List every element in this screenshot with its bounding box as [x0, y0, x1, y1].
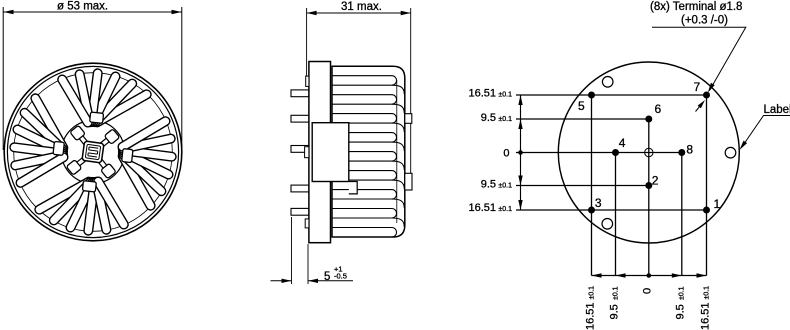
- side view: winding wire segment 2: [332, 84, 392, 86]
- bottom view: left dim vertical line: [520, 95, 522, 210]
- left view: winding spoke 8: [25, 113, 64, 150]
- side view: winding wire segment 25: [332, 228, 397, 238]
- side view: winding wire segment 21: [392, 199, 405, 208]
- svg-text:7: 7: [694, 80, 701, 94]
- bottom view: center reference mark: [645, 148, 653, 156]
- left view: winding spoke 12: [21, 157, 64, 183]
- side view: winding wire segment 15: [392, 161, 405, 170]
- left view: winding spoke 14: [54, 182, 91, 221]
- side view: winding wire segment 8: [350, 122, 392, 124]
- left view: winding spoke 4: [92, 73, 98, 122]
- side view: winding wire segment 22: [332, 209, 397, 219]
- left view: center hub square: [82, 141, 104, 163]
- left view: winding spoke 24: [123, 121, 166, 147]
- side view: bottom dim extension lines: [291, 217, 293, 284]
- bottom view: terminal 4: [612, 149, 619, 156]
- side view: pin 3 collar: [305, 147, 309, 158]
- bottom view: terminal 8: [678, 149, 685, 156]
- side view: winding wire segment 11: [350, 141, 392, 143]
- side view: winding wire segment 17: [350, 179, 392, 181]
- side view: winding wire segment 12: [392, 142, 405, 151]
- svg-text:4: 4: [619, 136, 626, 150]
- left view: hub pad at 135 deg: [70, 125, 85, 140]
- side view: extension line left: [306, 8, 308, 86]
- bottom view: terminal 2: [645, 182, 652, 189]
- svg-text:-0.5: -0.5: [334, 272, 347, 281]
- svg-text:±0.1: ±0.1: [703, 286, 710, 300]
- svg-text:±0.1: ±0.1: [612, 286, 619, 300]
- left view: ø53 dimension line with arrowheads: [4, 11, 182, 13]
- left view: bobbin circle: [62, 121, 125, 184]
- side view: terminal pin 5: [291, 208, 309, 215]
- svg-text:9.5: 9.5: [675, 304, 687, 319]
- svg-text:0: 0: [642, 288, 654, 294]
- left view: hub pad at 225 deg: [66, 160, 81, 175]
- left view: winding spoke 21: [123, 152, 169, 174]
- svg-text:16.51: 16.51: [584, 302, 596, 330]
- side view: winding wire segment 24: [392, 218, 405, 227]
- svg-text:16.51: 16.51: [468, 88, 496, 100]
- svg-text:6: 6: [655, 102, 662, 116]
- bottom view: terminal 5: [588, 92, 595, 99]
- left view: winding spoke 11: [15, 155, 63, 165]
- left view: bobbin pad at 174 deg: [53, 141, 64, 155]
- svg-text:±0.1: ±0.1: [498, 183, 512, 190]
- left view: winding spoke 7: [35, 98, 63, 148]
- bottom view: bottom rotated dim labels: [584, 286, 596, 330]
- left view: winding spoke 10: [14, 147, 63, 153]
- side view: winding wire segment 10: [350, 133, 397, 143]
- svg-text:±0.1: ±0.1: [498, 206, 512, 213]
- side view: winding wire segment 18: [392, 180, 405, 189]
- side view: winding wire segment 14: [350, 160, 392, 162]
- left view: winding spoke 5: [80, 74, 90, 122]
- side view: winding wire segment 4: [332, 95, 397, 105]
- left view: hub pad at 45 deg: [104, 129, 119, 144]
- side view: hub box step: [349, 182, 357, 194]
- bottom view: grid column lines: [592, 95, 707, 276]
- side view: winding wire segment 6: [392, 104, 405, 113]
- left view: winding spoke 3: [93, 77, 115, 123]
- bottom view: terminal 1: [703, 207, 710, 214]
- svg-text:5: 5: [578, 99, 585, 113]
- side view: winding wire segment 20: [332, 198, 392, 200]
- left view: winding spoke 22: [123, 151, 172, 157]
- left view: extension line right: [181, 7, 183, 150]
- left view: hub pad at 315 deg: [101, 163, 116, 178]
- svg-text:5: 5: [324, 271, 330, 283]
- bottom view: terminal callout leader: [652, 27, 746, 90]
- bottom view: mounting boss bottom-left: [602, 219, 613, 230]
- svg-text:±0.1: ±0.1: [588, 286, 595, 300]
- side view: terminal pin 3: [291, 146, 309, 153]
- svg-text:±0.1: ±0.1: [498, 92, 512, 99]
- svg-text:16.51: 16.51: [468, 202, 496, 214]
- bottom view: terminal 6: [645, 116, 652, 123]
- left view: winding spoke 15: [71, 182, 93, 228]
- left view: winding spoke 2: [95, 84, 132, 123]
- left view: outer case circle: [4, 63, 182, 241]
- left view: hub arm at 225 deg: [77, 158, 86, 166]
- svg-text:9.5: 9.5: [481, 112, 496, 124]
- left view: winding spoke 9: [18, 130, 64, 152]
- left view: winding spoke 19: [123, 156, 151, 206]
- left view: winding spoke 18: [98, 182, 124, 225]
- left view: case rim circle: [7, 66, 178, 237]
- svg-text:Label: Label: [764, 104, 790, 116]
- svg-text:9.5: 9.5: [608, 304, 620, 319]
- side view: winding wire segment 7: [332, 114, 397, 124]
- bottom view: bottom dim horizontal line: [592, 275, 707, 277]
- svg-text:ø 53 max.: ø 53 max.: [57, 1, 108, 13]
- left view: bobbin pad at 264 deg: [82, 181, 96, 192]
- left view: winding spoke 23: [123, 139, 171, 149]
- svg-text:8: 8: [686, 143, 693, 157]
- bottom view: Label callout leader: [742, 116, 790, 148]
- left view: extension line left: [2, 7, 4, 150]
- left view: hub arm at 45 deg: [100, 139, 109, 147]
- side view: center hub box: [312, 123, 349, 182]
- side view: terminal pin 2: [291, 115, 309, 122]
- bottom view: grid row lines: [516, 95, 707, 210]
- left view: winding spoke 20: [123, 154, 161, 191]
- side view: winding body outline: [332, 66, 405, 237]
- left view: inner case edge circle: [14, 73, 173, 232]
- left view: logo mark inside hub: [85, 144, 100, 159]
- svg-text:1: 1: [714, 197, 721, 211]
- bottom view: terminal 7: [703, 92, 710, 99]
- side view: bottom dim line with arrowheads: [271, 280, 292, 282]
- svg-text:16.51: 16.51: [699, 302, 711, 330]
- left view: hub arm at 315 deg: [99, 159, 107, 168]
- side view: winding wire segment 19: [332, 190, 397, 200]
- bottom view: secondary arrow at terminal 7: [696, 103, 703, 112]
- bottom view: mounting boss right: [725, 147, 736, 158]
- side view: winding wire segment 16: [350, 171, 397, 181]
- side view: right terminal pad upper: [405, 114, 412, 124]
- svg-text:(+0.3 /-0): (+0.3 /-0): [681, 15, 728, 27]
- bottom view: package outline circle: [558, 62, 739, 243]
- left view: winding spoke 1: [97, 94, 147, 122]
- side view: right terminal pad lower: [405, 173, 412, 190]
- side view: 31 max dimension line with arrowheads: [307, 12, 411, 14]
- left view: winding spoke 17: [96, 182, 106, 230]
- side view: winding wire segment 1: [332, 76, 397, 86]
- side view: plate notch upper: [306, 76, 309, 86]
- left view: bobbin pad at -6 deg: [122, 149, 133, 163]
- side view: extension line right: [410, 8, 412, 176]
- svg-text:9.5: 9.5: [481, 179, 496, 191]
- svg-text:±0.1: ±0.1: [679, 286, 686, 300]
- bottom view: mounting boss top-left: [602, 77, 613, 88]
- svg-text:(8x) Terminal ø1.8: (8x) Terminal ø1.8: [650, 1, 742, 13]
- side view: header plate: [309, 62, 331, 243]
- left view: hub arm at 135 deg: [80, 136, 88, 145]
- side view: winding wire segment 13: [350, 152, 397, 162]
- side view: plate notch lower: [305, 219, 309, 228]
- side view: winding wire segment 3: [392, 85, 405, 94]
- svg-text:31 max.: 31 max.: [341, 1, 382, 13]
- svg-text:±0.1: ±0.1: [498, 116, 512, 123]
- side view: winding wire segment 23: [332, 217, 392, 219]
- left view: winding spoke 6: [62, 80, 88, 123]
- svg-text:2: 2: [652, 174, 659, 188]
- left view: bobbin pad at 84 deg: [90, 112, 104, 123]
- left view: winding spoke 13: [39, 182, 89, 210]
- svg-text:0: 0: [503, 148, 509, 160]
- bottom view: terminal 3: [588, 207, 595, 214]
- side view: winding wire segment 9: [392, 123, 405, 132]
- side view: terminal pin 1: [291, 90, 309, 97]
- left view: winding spoke 16: [88, 182, 94, 231]
- side view: winding wire segment 5: [332, 103, 392, 105]
- side view: terminal pin 4: [291, 185, 309, 192]
- svg-text:3: 3: [595, 196, 602, 210]
- side view: inner vertical wire edge: [396, 80, 398, 223]
